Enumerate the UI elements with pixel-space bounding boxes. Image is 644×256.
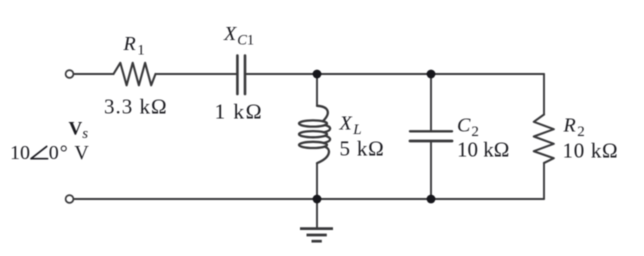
wire bottom <box>74 198 544 200</box>
wire right side down to R2 <box>543 74 545 115</box>
terminal bottom-left <box>66 195 74 203</box>
wire R1 to XC1 <box>156 73 237 75</box>
capacitor XC1 <box>237 56 245 95</box>
node B junction dot <box>427 70 436 79</box>
terminal top-left <box>66 70 74 78</box>
wire XC1 to node A <box>246 73 317 75</box>
svg-text:10 kΩ: 10 kΩ <box>457 138 509 162</box>
node D junction dot <box>427 195 436 204</box>
node C junction dot <box>313 195 322 204</box>
wire top: terminal to R1 <box>74 73 114 75</box>
svg-text:XC1: XC1 <box>223 23 254 49</box>
angle symbol <box>31 146 48 158</box>
svg-text:C2: C2 <box>457 115 479 141</box>
svg-text:R2: R2 <box>563 115 585 141</box>
svg-text:Vs: Vs <box>69 119 89 143</box>
node A junction dot <box>313 70 322 79</box>
wire inductor to node C <box>316 163 318 199</box>
ground <box>300 229 333 242</box>
wire node B to top-right corner <box>431 73 544 75</box>
wire node B down to C2 <box>430 74 432 130</box>
wire C2 to node D <box>430 143 432 200</box>
svg-text:0° V: 0° V <box>49 142 90 164</box>
resistor R1 <box>114 63 156 86</box>
wire node A down to inductor <box>316 74 318 106</box>
svg-text:5 kΩ: 5 kΩ <box>340 137 385 161</box>
wire R2 to bottom-right corner <box>543 163 545 199</box>
svg-text:10: 10 <box>10 142 30 164</box>
resistor R2 <box>534 115 554 164</box>
wire node A to node B <box>317 73 431 75</box>
svg-text:3.3 kΩ: 3.3 kΩ <box>104 95 168 119</box>
svg-text:10 kΩ: 10 kΩ <box>563 139 619 163</box>
capacitor C2 <box>410 130 452 132</box>
svg-text:XL: XL <box>339 113 362 139</box>
svg-text:1 kΩ: 1 kΩ <box>215 99 263 123</box>
inductor XL <box>299 106 330 163</box>
svg-text:R1: R1 <box>123 33 145 59</box>
wire node C to ground <box>316 199 318 228</box>
